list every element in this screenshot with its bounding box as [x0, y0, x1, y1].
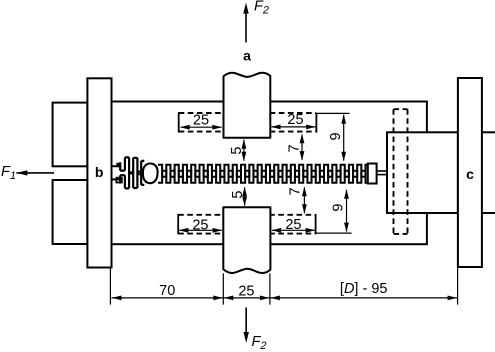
svg-text:7: 7: [288, 187, 304, 195]
svg-text:7: 7: [287, 144, 303, 152]
svg-text:[D] - 95: [D] - 95: [340, 281, 388, 297]
svg-text:9: 9: [328, 132, 344, 140]
svg-text:9: 9: [331, 204, 347, 212]
svg-text:25: 25: [287, 112, 303, 128]
svg-text:25: 25: [192, 217, 208, 233]
svg-text:5: 5: [230, 191, 246, 199]
svg-text:25: 25: [285, 217, 301, 233]
svg-text:25: 25: [193, 113, 209, 129]
svg-text:a: a: [243, 47, 251, 63]
svg-text:25: 25: [238, 283, 254, 299]
svg-text:5: 5: [229, 147, 245, 155]
svg-text:b: b: [95, 164, 104, 180]
svg-text:70: 70: [159, 283, 175, 299]
svg-text:c: c: [466, 166, 474, 182]
